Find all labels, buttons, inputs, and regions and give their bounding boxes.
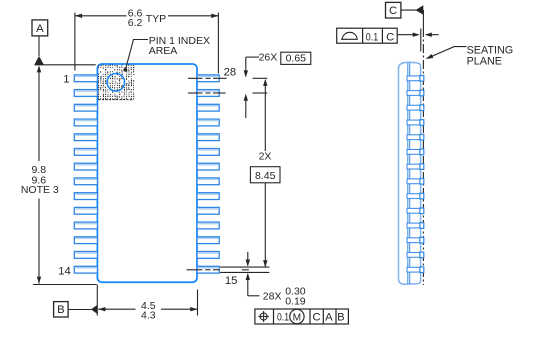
lead width dimension arrows: [247, 252, 249, 260]
svg-text:M: M: [293, 312, 302, 323]
svg-text:PLANE: PLANE: [467, 55, 502, 67]
dimension 9.8/9.6 line: [37, 65, 41, 72]
svg-text:6.2: 6.2: [128, 17, 143, 29]
pitch lower arrow: [244, 94, 248, 101]
flatness symbol: [341, 32, 358, 39]
svg-text:8.45: 8.45: [255, 170, 276, 182]
svg-text:B: B: [57, 304, 65, 316]
svg-text:1: 1: [63, 74, 69, 86]
datum A leader and triangle: [38, 36, 40, 56]
position tolerance feature control frame: [255, 309, 349, 324]
body top extension line (left): [35, 64, 96, 66]
side view pin row 1 lead foot: [420, 76, 424, 82]
side view pin row 14 lead foot: [420, 267, 424, 273]
svg-text:14: 14: [58, 265, 71, 277]
svg-text:0.65: 0.65: [286, 52, 307, 64]
side view pin row 8 lead profile: [407, 179, 421, 184]
pin 4 lead: [74, 119, 97, 126]
pin 7 lead: [74, 163, 97, 170]
pin 5 lead: [74, 134, 97, 141]
side view pin row 12 lead profile: [407, 238, 421, 243]
side view pin row 4 lead profile: [407, 120, 421, 125]
svg-text:C: C: [389, 5, 397, 17]
pin 15 lead width extension lines: [220, 266, 269, 268]
svg-text:2X: 2X: [259, 150, 272, 162]
pin 11 lead: [74, 222, 97, 229]
svg-text:C: C: [386, 31, 394, 43]
side view pin row 12 lead foot: [420, 237, 424, 243]
side view pin row 6 lead foot: [420, 149, 424, 155]
side view pin row 1 lead profile: [407, 76, 421, 81]
pin 10 lead: [74, 207, 97, 214]
SEATING PLANE leader: [428, 47, 466, 58]
svg-text:AREA: AREA: [149, 45, 178, 57]
side view pin row 6 lead profile: [407, 150, 421, 155]
svg-text:15: 15: [225, 275, 238, 287]
side view pin row 13 lead profile: [407, 253, 421, 258]
svg-text:A: A: [325, 312, 333, 324]
pin 27 centerline (dash-dot): [188, 92, 267, 94]
pin 1 lead: [74, 75, 97, 82]
pin 22 lead: [197, 163, 219, 170]
side view pin row 13 lead foot: [420, 252, 424, 258]
body bottom extension line (left): [33, 284, 97, 286]
pin 25 lead: [197, 119, 219, 126]
side view pin row 2 lead foot: [420, 90, 424, 96]
datum B leader and triangle: [68, 309, 91, 311]
26X 0.65 pitch leader and label: [246, 56, 259, 58]
svg-text:NOTE 3: NOTE 3: [21, 184, 59, 196]
side view inner face line: [407, 63, 409, 284]
svg-text:0.1: 0.1: [277, 312, 289, 324]
pin 19 lead: [197, 207, 219, 214]
pin 14 lead: [74, 266, 97, 273]
side view pin row 14 lead profile: [407, 267, 421, 272]
svg-text:0.19: 0.19: [285, 296, 306, 308]
pin 18 lead: [197, 222, 219, 229]
side view pin row 4 lead foot: [420, 120, 424, 126]
position symbol: [260, 313, 267, 320]
svg-text:4.3: 4.3: [141, 310, 156, 322]
svg-text:28X: 28X: [263, 290, 282, 302]
pin 2 lead: [74, 90, 97, 97]
pin 27 lead: [197, 90, 219, 97]
pin 17 lead: [197, 237, 219, 244]
svg-text:A: A: [36, 23, 44, 35]
side view pin row 7 lead foot: [420, 164, 424, 170]
side view pin row 10 lead profile: [407, 208, 421, 213]
datum C leader and triangle: [401, 9, 417, 11]
pin 15 lead: [197, 266, 219, 273]
side view pin row 11 lead foot: [420, 223, 424, 229]
pin 1 index circle: [107, 74, 125, 92]
right body edge extension line (bottom): [197, 290, 199, 316]
pin 15 centerline (dash-dot): [187, 269, 249, 271]
pin 28 lead: [197, 75, 219, 82]
side view pin row 9 lead foot: [420, 193, 424, 199]
pin 12 lead: [74, 237, 97, 244]
pin 28 centerline (dash-dot): [188, 77, 267, 79]
datum C symbol box: [386, 2, 401, 18]
pin 6 lead: [74, 149, 97, 156]
pin 13 lead: [74, 252, 97, 259]
stipple bottom boundary dashes: [98, 99, 134, 101]
dimension 6.6/6.2 TYP dimension line and arrows: [75, 15, 127, 17]
left body edge extension line (bottom): [96, 285, 98, 316]
svg-text:0.1: 0.1: [366, 31, 378, 43]
package body outline (front view): [97, 64, 197, 282]
side view body outline: [399, 62, 421, 284]
dimension 4.5/4.3 line and arrows: [98, 308, 135, 310]
pin 3 lead: [74, 104, 97, 111]
side view pin row 3 lead foot: [420, 105, 424, 111]
pin 9 lead: [74, 193, 97, 200]
2X 8.45 dimension line: [263, 79, 267, 86]
svg-text:26X: 26X: [259, 51, 278, 63]
side view pin row 7 lead profile: [407, 164, 421, 169]
pin 20 lead: [197, 193, 219, 200]
pin 16 lead: [197, 252, 219, 259]
pin 24 lead: [197, 134, 219, 141]
side view pin row 2 lead profile: [407, 91, 421, 96]
side view pin row 10 lead foot: [420, 208, 424, 214]
side view pin row 5 lead profile: [407, 135, 421, 140]
seating plane datum line: [422, 10, 424, 28]
pin 1 index stipple area: [98, 64, 135, 99]
dimension 6.6/6.2 TYP extension lines: [74, 13, 76, 71]
flatness feature control frame: [337, 28, 398, 43]
side view pin row 11 lead profile: [407, 223, 421, 228]
svg-text:28: 28: [224, 66, 237, 78]
PIN 1 INDEX AREA leader: [125, 40, 148, 70]
side view pin row 5 lead foot: [420, 134, 424, 140]
svg-text:TYP: TYP: [146, 13, 166, 25]
side view pin row 3 lead profile: [407, 105, 421, 110]
pin 21 lead: [197, 178, 219, 185]
pin 26 lead: [197, 104, 219, 111]
pin 8 lead: [74, 178, 97, 185]
datum A symbol box: [32, 20, 48, 36]
side view pin row 9 lead profile: [407, 194, 421, 199]
side view pin row 8 lead foot: [420, 179, 424, 185]
svg-text:C: C: [313, 312, 321, 324]
side view lead rail: [409, 63, 411, 284]
package extent line: [420, 29, 422, 52]
pin 23 lead: [197, 149, 219, 156]
datum B symbol box: [54, 302, 69, 317]
svg-text:B: B: [337, 312, 345, 324]
0.1 zone arrows: [398, 34, 416, 36]
